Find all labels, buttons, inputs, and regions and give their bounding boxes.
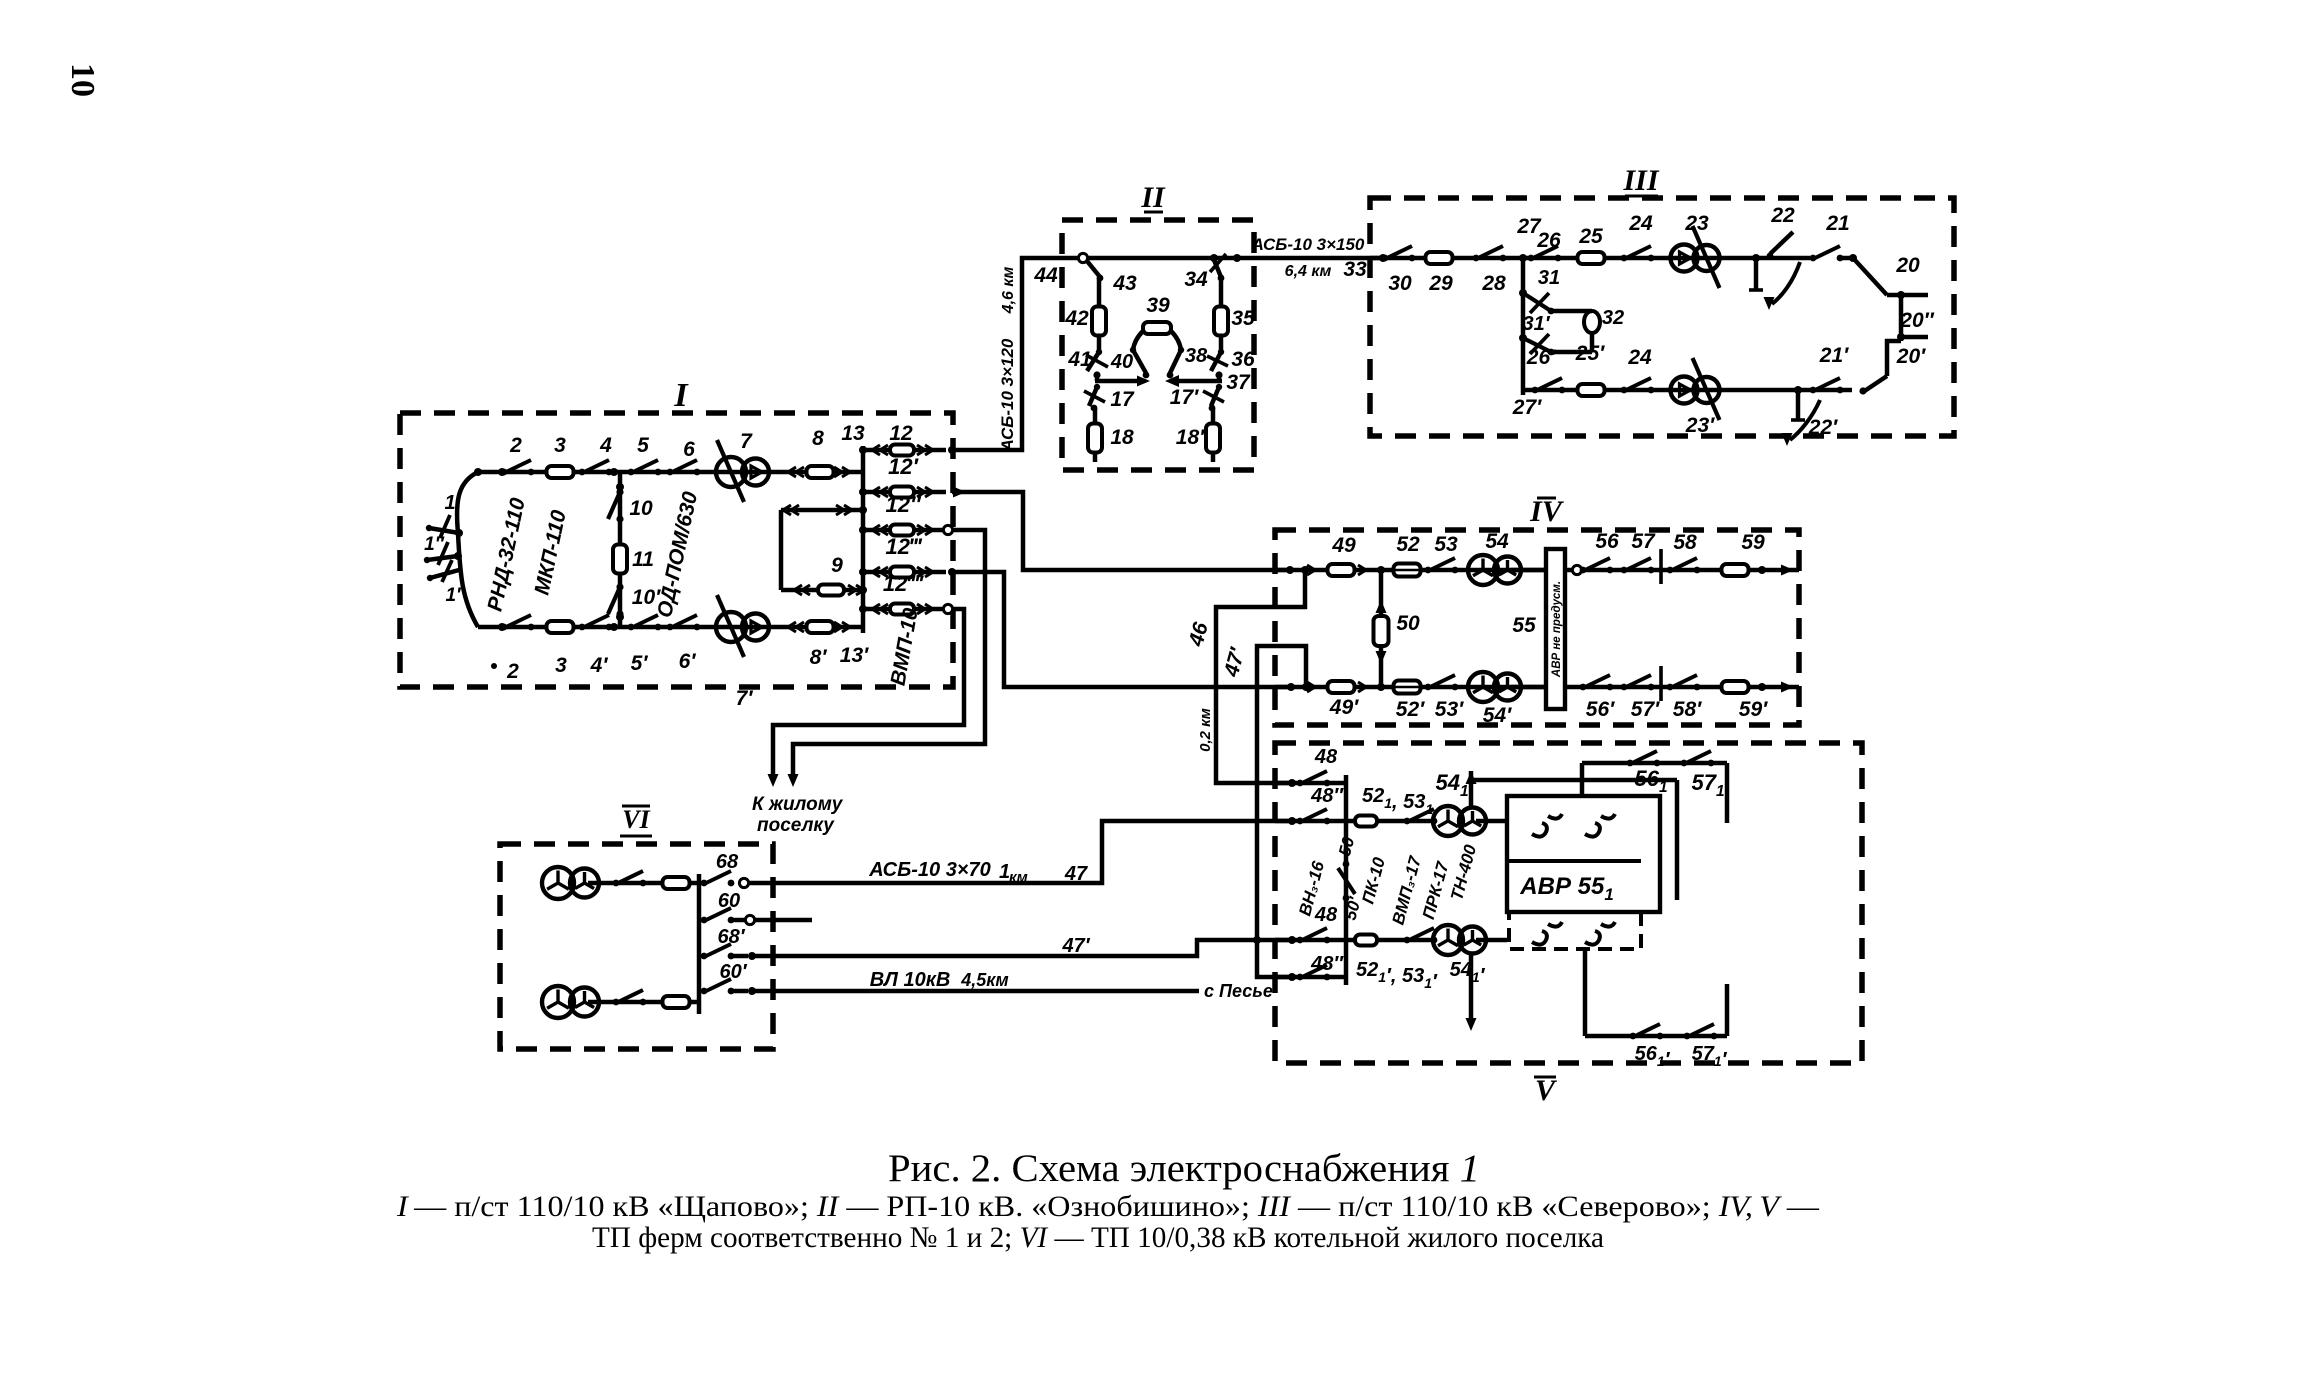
svg-text:10: 10	[629, 497, 653, 520]
svg-text:37: 37	[1226, 371, 1251, 394]
svg-text:57: 57	[1631, 530, 1656, 553]
svg-text:км: км	[1009, 869, 1028, 886]
chevrons after fuse 8'	[834, 622, 842, 632]
wire left bracket	[457, 472, 478, 627]
transformer 23	[1671, 245, 1698, 272]
node 47' join	[1253, 936, 1261, 944]
jog wire	[1887, 341, 1901, 376]
svg-text:11: 11	[632, 548, 654, 571]
disconnector 53-1'	[1404, 937, 1411, 944]
node 46a	[1301, 566, 1309, 574]
disconnector 56-1	[1627, 760, 1634, 767]
disconnector 24	[1621, 255, 1628, 262]
wire 39 left lead	[1133, 331, 1143, 350]
wire 32 leads	[1590, 311, 1595, 312]
disconnector 60	[701, 917, 708, 924]
disconnector 31'	[1523, 338, 1551, 352]
svg-text:III: III	[1622, 164, 1659, 197]
svg-text:58: 58	[1673, 531, 1697, 554]
stub below 22'	[1796, 390, 1801, 420]
disconnector T2	[613, 999, 620, 1006]
wire 18' stub	[1211, 453, 1216, 462]
substation box I (p/st 110/10 kV Shchapovo)	[400, 413, 953, 687]
contactor d	[1585, 922, 1615, 945]
fuse 25'	[1578, 384, 1605, 396]
svg-text:41: 41	[1067, 348, 1091, 371]
svg-text:48″: 48″	[1310, 785, 1344, 807]
switchpoint box II (RP-10 kV Oznobishino)	[1062, 220, 1254, 470]
svg-text:9: 9	[831, 554, 843, 577]
disconnector 6	[667, 469, 674, 476]
disconnector 22	[1770, 232, 1793, 254]
fuse 25	[1578, 252, 1605, 264]
node 20''	[1897, 333, 1905, 341]
node 68'	[748, 952, 756, 960]
contactor a	[1532, 814, 1562, 837]
svg-text:55: 55	[1512, 614, 1536, 637]
fuse 12 row 3	[890, 525, 914, 536]
svg-text:2: 2	[506, 660, 519, 683]
disconnector 60'	[701, 988, 708, 995]
node 60'	[748, 987, 756, 995]
wire to IV top (row2)	[952, 492, 1290, 570]
wire through II	[1062, 256, 1254, 261]
chevrons after fuse 8	[834, 467, 842, 477]
fuse 59'	[1722, 681, 1749, 693]
terminal 60	[745, 915, 754, 924]
disconnector 57	[1621, 567, 1628, 574]
node A3	[454, 552, 462, 560]
node 22'a	[1794, 386, 1802, 394]
node A1 (bus entry top)	[474, 468, 482, 476]
node V entry 4	[1288, 973, 1296, 981]
svg-text:56′: 56′	[1586, 698, 1615, 721]
wire III top chain	[1370, 256, 1756, 261]
svg-text:48: 48	[1314, 904, 1338, 926]
disconnector 68'	[701, 953, 708, 960]
wire 34-35	[1219, 278, 1224, 307]
svg-text:3: 3	[554, 434, 566, 457]
svg-text:АСБ-10 3×120: АСБ-10 3×120	[998, 338, 1017, 452]
svg-text:20: 20	[1895, 254, 1920, 277]
svg-text:54: 54	[1485, 530, 1509, 553]
disconnector 6'	[667, 624, 674, 631]
feeder row 1 wire	[863, 448, 946, 453]
chevrons loop top	[791, 505, 799, 515]
transformer point box IV (TP farm no.1)	[1275, 530, 1799, 725]
wire V row2 chain	[1346, 819, 1433, 824]
hook arrow 22'	[1790, 400, 1820, 440]
chevrons row 4 left	[880, 567, 888, 577]
svg-text:АВР не предусм.: АВР не предусм.	[1551, 581, 1563, 678]
diag switch 20'	[1863, 376, 1887, 392]
chevrons row 5 right	[917, 604, 925, 614]
svg-text:60: 60	[718, 890, 740, 912]
svg-text:I: I	[673, 377, 689, 414]
wire 47 run	[748, 821, 1294, 883]
disconnector 10'	[616, 583, 623, 590]
disconnector 41	[1087, 352, 1099, 371]
stub 20 right	[1887, 293, 1928, 298]
disconnector 30	[1382, 255, 1389, 262]
transformer 7'	[716, 612, 746, 642]
transformer 54'	[1468, 672, 1498, 702]
fuse-sw 52'	[1394, 681, 1421, 694]
disconnector 26	[1528, 255, 1535, 262]
svg-text:3: 3	[555, 654, 567, 677]
fuse T2	[663, 996, 690, 1008]
node 36b	[1215, 371, 1222, 378]
stub arrow below 54-1'	[1469, 955, 1474, 1025]
transformer 54-1	[1433, 806, 1463, 836]
wire 54'-55	[1511, 685, 1546, 690]
terminal 43 entry	[1078, 253, 1087, 262]
svg-text:4,5км: 4,5км	[960, 970, 1008, 990]
wire middle branch	[618, 472, 623, 627]
svg-text:18: 18	[1110, 426, 1134, 449]
disconnector 56'	[1580, 684, 1587, 691]
fuse 3	[547, 466, 574, 478]
svg-text:5: 5	[637, 434, 649, 457]
chevrons row 1 left	[880, 445, 888, 455]
svg-text:18′: 18′	[1176, 426, 1205, 449]
wire V entry 2	[1275, 819, 1346, 824]
fuse 35	[1214, 307, 1228, 336]
terminal row5	[943, 604, 952, 613]
svg-text:68′: 68′	[717, 926, 745, 948]
svg-text:1: 1	[444, 492, 455, 514]
svg-text:30: 30	[1388, 272, 1412, 295]
wire top chain	[478, 470, 863, 475]
disconnector 1	[429, 528, 459, 533]
disconnector 31	[1523, 293, 1551, 311]
busbar 13	[861, 446, 866, 633]
vertical fuse 50 branch	[1379, 570, 1384, 616]
feeder row 5 wire	[863, 607, 946, 612]
node IV top entry	[1286, 566, 1294, 574]
wire VL 10kV run	[752, 989, 1199, 994]
svg-text:8: 8	[812, 427, 824, 450]
wire III bottom chain	[1523, 388, 1852, 393]
node 50a	[1377, 566, 1385, 574]
node 4'b	[610, 623, 618, 631]
feeder row 3 wire	[863, 528, 946, 533]
wire 31-32	[1551, 309, 1592, 314]
right rail V	[1675, 780, 1680, 900]
svg-text:58′: 58′	[1673, 698, 1702, 721]
svg-text:25: 25	[1578, 225, 1603, 248]
fuse 12 row 4	[890, 567, 914, 578]
wire 50-bottom	[1379, 646, 1384, 687]
disconnector 53-1	[1404, 818, 1411, 825]
svg-text:43: 43	[1112, 272, 1137, 295]
node 31'a	[1519, 334, 1527, 342]
label VI underline	[620, 835, 652, 838]
circle 32	[1584, 311, 1600, 333]
svg-text:12‴′: 12‴′	[883, 571, 925, 596]
node 30a	[1379, 254, 1387, 262]
label VI overline	[622, 805, 650, 808]
transformer T1 VI	[542, 867, 574, 899]
chevron IV b1	[1307, 682, 1315, 692]
diag switch 20	[1853, 258, 1887, 295]
wire IV top chain	[1275, 568, 1546, 573]
AVR bar 55	[1546, 549, 1565, 709]
svg-text:6′: 6′	[679, 650, 697, 673]
svg-text:К жилому: К жилому	[752, 794, 844, 815]
transformer point box V (TP farm no.2)	[1275, 743, 1862, 1063]
svg-text:17: 17	[1110, 388, 1135, 411]
svg-text:33: 33	[1343, 258, 1367, 281]
svg-text:53′: 53′	[1435, 698, 1464, 721]
fuse 3'	[547, 621, 574, 633]
disconnector 21'	[1810, 387, 1817, 394]
disconnector 36	[1211, 352, 1221, 371]
disconnector 26'	[1532, 387, 1539, 394]
svg-text:13: 13	[841, 422, 865, 445]
svg-text:23: 23	[1684, 212, 1709, 235]
wire 54-1 out	[1476, 819, 1507, 824]
arrow w-row2	[953, 487, 966, 498]
contactor b	[1585, 814, 1615, 837]
svg-text:38: 38	[1185, 345, 1208, 367]
disconnector 48&#8243; row4	[1297, 974, 1304, 981]
busbar VI	[697, 874, 702, 1014]
fuse 29	[1426, 252, 1453, 264]
wire 17'-18'	[1211, 408, 1216, 424]
wire to settlement 2 (row5)	[773, 609, 964, 780]
label V overline	[1534, 1076, 1556, 1079]
svg-text:39: 39	[1146, 294, 1170, 317]
svg-text:35: 35	[1231, 307, 1255, 330]
svg-text:IV: IV	[1529, 495, 1565, 528]
wire 44 run (I to II)	[952, 258, 1062, 450]
wire V top row 56-57	[1582, 761, 1727, 766]
fuse 11	[613, 545, 627, 574]
node row 3	[859, 526, 867, 534]
chevrons row 5 left	[880, 604, 888, 614]
node 47'a	[1302, 683, 1310, 691]
label IV overline	[1537, 497, 1556, 500]
svg-text:13′: 13′	[840, 644, 869, 667]
chevrons before fuse 8	[796, 467, 804, 477]
chevrons row 1 right	[917, 445, 925, 455]
bus II left segment	[1095, 379, 1143, 384]
wire V bottom row 56'-57'	[1583, 949, 1588, 1036]
svg-text:68: 68	[716, 851, 739, 873]
svg-text:II: II	[1140, 181, 1166, 214]
svg-text:44: 44	[1033, 264, 1058, 287]
svg-text:57′: 57′	[1631, 698, 1660, 721]
fuse 12 row 2	[890, 487, 914, 498]
fuse 8	[807, 466, 834, 478]
fuse-sw 52	[1394, 564, 1421, 577]
stub below 22	[1754, 258, 1759, 290]
svg-text:17′: 17′	[1170, 386, 1199, 409]
wire 39 right lead	[1171, 331, 1181, 350]
busbar 27	[1521, 258, 1526, 395]
wire 47' run	[752, 940, 1292, 956]
stub arrows above 54-1	[1469, 771, 1474, 806]
fuse 18'	[1206, 424, 1220, 453]
node row 2	[859, 488, 867, 496]
svg-text:26: 26	[1536, 229, 1561, 252]
node 10a	[616, 483, 624, 491]
wire T2-bus	[588, 1000, 699, 1005]
wire 43-42	[1097, 278, 1102, 307]
disconnector 1'	[430, 570, 459, 578]
svg-text:48: 48	[1314, 746, 1338, 768]
wire 36-bus	[1217, 375, 1222, 381]
loop 9 left wire	[779, 510, 784, 590]
loop 9 bottom wire	[781, 588, 818, 593]
node 31a	[1519, 289, 1527, 297]
svg-text:20′: 20′	[1896, 345, 1926, 368]
disconnector 2	[501, 469, 508, 476]
wire V entry 1	[1275, 781, 1346, 786]
AVR box 55-1 outer	[1507, 796, 1660, 912]
svg-text:21: 21	[1825, 212, 1849, 235]
disconnector 48&#8243; row2	[1297, 818, 1304, 825]
node 59'b	[1758, 683, 1766, 691]
svg-text:6,4 км: 6,4 км	[1285, 263, 1332, 280]
node IV bottom entry	[1287, 683, 1295, 691]
label III underline	[1625, 195, 1658, 198]
wire to settlement 1 (row3)	[793, 530, 985, 780]
svg-text:1′: 1′	[445, 585, 462, 606]
disconnector 17	[1089, 387, 1097, 406]
svg-text:АСБ-10 3×70: АСБ-10 3×70	[868, 859, 991, 881]
node 4b	[610, 468, 618, 476]
svg-text:0,2 км: 0,2 км	[1197, 708, 1214, 752]
svg-text:4: 4	[599, 434, 612, 457]
disconnector 56	[1580, 567, 1587, 574]
wire T1-bus	[588, 881, 699, 886]
svg-text:7: 7	[740, 430, 753, 453]
disconnector 68	[701, 880, 708, 887]
transformer 7	[716, 457, 746, 487]
wire V right rise	[1725, 984, 1730, 1036]
node 10b	[616, 613, 624, 621]
svg-text:24: 24	[1628, 212, 1653, 235]
disconnector 5'	[628, 624, 635, 631]
svg-text:56: 56	[1595, 530, 1619, 553]
node 2'a	[498, 623, 506, 631]
disconnector 43	[1087, 261, 1100, 277]
wire V entry 4	[1275, 975, 1346, 980]
svg-text:ВЛ 10кВ: ВЛ 10кВ	[870, 969, 951, 991]
disconnector 38	[1170, 350, 1181, 373]
AVR inner divider	[1507, 859, 1641, 863]
node w33a	[1233, 254, 1241, 262]
fuse 39	[1143, 322, 1171, 334]
disconnector 1''	[427, 556, 458, 560]
transformer 54	[1468, 555, 1498, 585]
bus II right segment	[1172, 379, 1222, 384]
chevron loop bottom	[802, 585, 810, 595]
svg-text:54′: 54′	[1483, 704, 1512, 727]
svg-text:50: 50	[1396, 612, 1420, 635]
svg-text:32: 32	[1602, 307, 1624, 329]
loop 9 top wire	[781, 508, 863, 513]
svg-text:59: 59	[1741, 531, 1765, 554]
terminal 68	[739, 878, 748, 887]
wire 35-36	[1219, 336, 1224, 352]
wire 46 (IV to V)	[1216, 570, 1305, 783]
svg-text:22′: 22′	[1808, 416, 1838, 439]
svg-text:29: 29	[1428, 272, 1453, 295]
arrow settlement 2	[768, 774, 779, 787]
fuse 59	[1722, 564, 1749, 576]
fuse 12 row 5	[890, 604, 914, 615]
disconnector 58'	[1667, 684, 1674, 691]
svg-text:4,6 км: 4,6 км	[1000, 267, 1017, 315]
svg-text:27′: 27′	[1512, 396, 1542, 419]
svg-text:12′: 12′	[888, 454, 919, 479]
wire IV bottom chain right	[1565, 685, 1799, 690]
node w44	[948, 446, 956, 454]
chevrons row 2 left	[880, 487, 888, 497]
terminal row3	[943, 525, 952, 534]
fuse T1	[663, 877, 690, 889]
svg-text:40: 40	[1110, 351, 1133, 373]
wire 31'-32	[1551, 350, 1592, 355]
chevrons before fuse 8'	[796, 622, 804, 632]
contactor c	[1532, 922, 1562, 945]
wire 47' upper (IV to V)	[1257, 646, 1306, 977]
wire IV top chain right	[1565, 568, 1799, 573]
node 41b	[1093, 371, 1100, 378]
svg-text:20″: 20″	[1899, 309, 1934, 332]
wire 54-55	[1511, 568, 1546, 573]
svg-text:I — п/ст 110/10 кВ «Щапово»; I: I — п/ст 110/10 кВ «Щапово»; II — РП-10 …	[396, 1190, 1820, 1223]
substation box III (p/st 110/10 kV Severovo)	[1370, 198, 1954, 436]
fuse 49	[1328, 564, 1355, 576]
chevrons row 2 right	[917, 487, 925, 497]
chevron IV b2	[1358, 682, 1366, 692]
node 20a	[1849, 254, 1857, 262]
transformer 23'	[1671, 377, 1698, 404]
node 50b	[1377, 683, 1385, 691]
node row 1	[859, 446, 867, 454]
disconnector 57-1'	[1684, 1033, 1691, 1040]
chevrons row 4 right	[917, 567, 925, 577]
transformer point box VI (TP 10/0.38 kV boiler)	[500, 844, 773, 1049]
disconnector 48 row3	[1297, 937, 1304, 944]
chevron IV t1	[1307, 565, 1315, 575]
node row 4	[859, 568, 867, 576]
wire 17-18	[1093, 408, 1098, 424]
bus sectionalizer 50	[1338, 868, 1355, 894]
svg-text:12‴: 12‴	[885, 534, 922, 559]
chevrons row 3 right	[917, 525, 925, 535]
svg-text:поселку: поселку	[757, 815, 835, 836]
fuse 50	[1374, 616, 1389, 646]
disconnector 40	[1133, 350, 1146, 373]
arrow settlement 1	[788, 774, 799, 787]
hook arrow 22	[1772, 262, 1800, 304]
svg-text:Рис. 2. Схема электроснабжения: Рис. 2. Схема электроснабжения 1	[888, 1147, 1480, 1190]
disconnector 57'	[1621, 684, 1628, 691]
svg-text:8′: 8′	[810, 646, 828, 669]
fuse 42	[1092, 307, 1106, 336]
AVR lower compartment	[1509, 912, 1641, 949]
fuse 52-1'	[1355, 935, 1377, 946]
svg-text:47: 47	[1064, 863, 1088, 885]
fuse 12 row 1	[890, 445, 914, 456]
svg-text:7′: 7′	[736, 687, 754, 710]
svg-text:59′: 59′	[1739, 698, 1768, 721]
